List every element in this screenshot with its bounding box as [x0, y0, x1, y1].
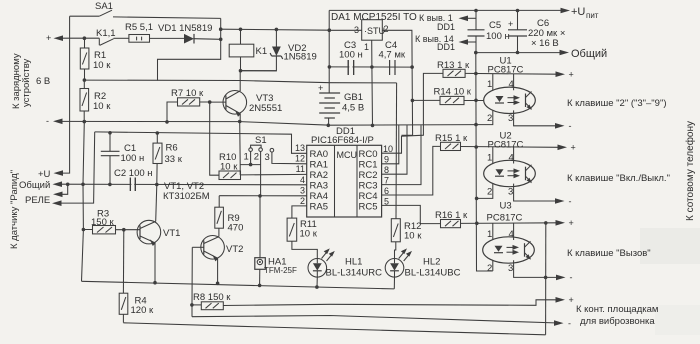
svg-text:× 16 В: × 16 В [531, 38, 559, 49]
wire DA1 pin1 down [371, 40, 374, 125]
wire line B VT2 base to vibro minus [192, 316, 555, 323]
wire pin5 RC5 to R16 [382, 205, 441, 223]
svg-text:3: 3 [508, 263, 513, 274]
svg-text:R5 5,1: R5 5,1 [125, 22, 153, 33]
junction R7 ground rail [165, 120, 169, 124]
switch SA1 [70, 10, 221, 18]
junction VT1 emitter rail [153, 281, 157, 285]
svg-text:C2 100 н: C2 100 н [114, 168, 153, 179]
wire plus rail after VD1 [221, 29, 330, 30]
svg-text:120 к: 120 к [131, 305, 154, 316]
svg-text:100 н: 100 н [121, 153, 145, 164]
junction V1 R16 line [475, 222, 479, 226]
svg-text:1: 1 [487, 229, 492, 240]
svg-text:К клавише "2" ("3"–"9"): К клавише "2" ("3"–"9") [567, 98, 667, 109]
svg-text:1: 1 [487, 79, 492, 90]
junction battery minus ground rail [327, 124, 331, 128]
wire 6V rail [84, 80, 396, 83]
svg-text:HL2: HL2 [423, 257, 440, 268]
svg-text:RA5: RA5 [310, 202, 328, 213]
arrow +U [54, 170, 64, 176]
junction DA1 pin1 C3C4 wire [370, 65, 374, 69]
wire R2 vertical down to Общий and R3 [82, 122, 85, 282]
wire DA1 pin2 right and down [382, 30, 412, 135]
svg-text:КТ3102БМ: КТ3102БМ [163, 191, 210, 202]
svg-text:10 к: 10 к [404, 231, 422, 242]
capacitor C6 [508, 11, 527, 53]
wire emitter rail D [82, 281, 395, 289]
junction R3 left [82, 228, 86, 232]
svg-text:PC817C: PC817C [487, 213, 523, 224]
left rotated label "К зарядному устройству" [11, 53, 32, 109]
optocoupler U3 [483, 201, 556, 278]
arrow U3 minus [556, 275, 566, 281]
ground rail [57, 121, 476, 125]
svg-text:-: - [46, 116, 49, 126]
svg-text:10 к: 10 к [220, 162, 238, 173]
svg-text:S1: S1 [255, 135, 267, 146]
svg-text:10 к: 10 к [300, 229, 318, 240]
svg-text:4: 4 [300, 175, 305, 185]
wire K vyv 14 DD1 arrow [462, 41, 476, 43]
LED HL2 [385, 248, 412, 289]
junction C6 Obshiy [516, 51, 520, 55]
wire VT3 base node down to R10 [210, 102, 219, 175]
wire VD1 node vertical [158, 29, 221, 80]
svg-text:2: 2 [487, 263, 492, 274]
wire RA5 pin2 to R11 [292, 206, 307, 218]
transistor VT2 [192, 236, 224, 284]
svg-text:1: 1 [364, 42, 369, 52]
resistor R10 [219, 171, 241, 180]
arrow РЕЛЕ [52, 200, 62, 206]
svg-text:+: + [571, 143, 576, 153]
svg-text:2: 2 [487, 187, 492, 198]
junction C3 wire battery [328, 65, 332, 69]
svg-text:9: 9 [384, 155, 389, 165]
svg-text:Общий: Общий [571, 48, 607, 60]
wire line C R4 to U3 minus [123, 323, 545, 335]
svg-text:RC5: RC5 [359, 202, 378, 213]
resistor R4 [119, 293, 128, 322]
svg-text:RC2: RC2 [359, 170, 378, 181]
svg-text:13: 13 [295, 143, 305, 153]
junction K1 bottom VT3 collector [239, 69, 243, 73]
svg-text:VT1: VT1 [163, 228, 180, 239]
pin numbers right [383, 144, 393, 207]
svg-text:R15 1 к: R15 1 к [435, 133, 468, 144]
resistor R5 [129, 35, 150, 43]
svg-text:10 к: 10 к [93, 101, 111, 112]
svg-text:VD1 1N5819: VD1 1N5819 [158, 23, 212, 34]
wire RA0 pin13 long wire [95, 132, 307, 153]
svg-text:1: 1 [244, 152, 249, 163]
junction RA4 wire S1 HA1 [258, 194, 262, 198]
svg-text:1: 1 [487, 153, 492, 164]
svg-text:2: 2 [384, 24, 389, 34]
svg-text:RC4: RC4 [359, 191, 378, 202]
svg-text:HL1: HL1 [345, 257, 362, 268]
junction corner top [219, 27, 223, 31]
arrow +Upit [561, 8, 571, 14]
wire R14 left vertical to DA1 pin2 line [402, 100, 441, 135]
junction plus rail DA1 [328, 28, 332, 32]
svg-text:BL-L314UBC: BL-L314UBC [405, 268, 461, 279]
junction VT3 emitter ground rail [238, 120, 242, 124]
junction V1 R14 line [474, 99, 478, 103]
svg-text:R13 1 к: R13 1 к [437, 60, 470, 71]
junction R1 bottom 6V rail [83, 78, 87, 82]
wire VT1 collector to Obshiy junction [156, 185, 157, 222]
battery GB1 [319, 93, 340, 125]
chip DD1 box [307, 145, 382, 217]
resistor R14 [440, 96, 484, 104]
resistor R11 [287, 218, 317, 259]
svg-text:SA1: SA1 [95, 1, 113, 12]
svg-text:+U: +U [38, 169, 51, 180]
resistor R15 [441, 142, 461, 150]
wire РЕЛЕ arrow to vertical [56, 132, 95, 203]
svg-text:4: 4 [509, 229, 514, 240]
capacitor C5 [468, 11, 485, 53]
svg-text:К конт. площадкам: К конт. площадкам [576, 304, 658, 315]
transistor VT3 [210, 71, 247, 122]
svg-text:устройству: устройству [21, 58, 32, 107]
wire U3 plus vertical down to line C [545, 223, 547, 335]
wire charger plus to K1.1 [57, 37, 99, 39]
svg-text:R7 10 к: R7 10 к [171, 88, 204, 99]
svg-text:2: 2 [300, 196, 305, 206]
svg-text:РЕЛЕ: РЕЛЕ [25, 195, 50, 206]
junction C5 Upit [474, 9, 478, 13]
svg-text:+: + [569, 70, 574, 80]
labels RA column [310, 149, 328, 213]
svg-text:+U: +U [571, 6, 585, 18]
svg-text:+: + [508, 19, 513, 29]
svg-text:R6: R6 [166, 143, 178, 154]
svg-text:+: + [46, 33, 51, 43]
resistor R12 [391, 219, 400, 259]
svg-text:150 к: 150 к [91, 217, 114, 228]
wire VT1 base node down to R4 [122, 230, 124, 294]
wire 6V vertical down to R12 [395, 83, 398, 219]
contact K1.1 [99, 38, 129, 45]
svg-text:DD1: DD1 [437, 22, 455, 32]
junction VD1 output [219, 38, 223, 42]
resistor R6 [153, 133, 162, 185]
junction VD2 top [275, 28, 279, 32]
capacitor C3 [348, 60, 353, 75]
svg-text:DA1 MCP1525I TO: DA1 MCP1525I TO [331, 12, 417, 23]
wire pin8 RC2 stub [382, 125, 407, 174]
wire Obshiy rail top [476, 52, 561, 54]
svg-text:K1,1: K1,1 [96, 28, 116, 39]
svg-text:K1: K1 [256, 46, 268, 57]
svg-text:-: - [568, 319, 571, 329]
wire left vertical from SA1 down to +U [57, 16, 70, 173]
wire battery plus vertical to Upit corner [328, 10, 330, 93]
regulator DA1 STU box [362, 20, 385, 41]
svg-text:PIC16F684-I/P: PIC16F684-I/P [311, 135, 374, 146]
svg-text:BL-L314URC: BL-L314URC [326, 268, 383, 279]
svg-text:8: 8 [384, 165, 389, 175]
wire VT2 base down to R8 [191, 247, 193, 316]
svg-text:10 к: 10 к [93, 60, 111, 71]
svg-text:-: - [569, 121, 572, 131]
svg-text:+: + [569, 218, 574, 228]
resistor R2 [80, 80, 89, 122]
wire RA2 pin11 to R10 [241, 173, 307, 176]
svg-text:К сотовому телефону: К сотовому телефону [684, 121, 696, 221]
svg-text:RC0: RC0 [359, 149, 378, 160]
svg-text:2: 2 [487, 113, 492, 124]
wire R5 to VD1 [150, 37, 185, 39]
resistor R1 [80, 40, 89, 80]
junction R6 bottom Obshiy VT1 collector [155, 183, 159, 187]
capacitor C1 [101, 133, 120, 185]
svg-text:4,7 мк: 4,7 мк [379, 50, 406, 61]
junction HA1 rail [258, 284, 262, 288]
junction R8 left [190, 303, 194, 307]
junction C1 bottom Obshiy [108, 183, 112, 187]
svg-text:U3: U3 [500, 201, 512, 212]
wire pin9 RC1 stub [382, 125, 399, 164]
wire Общий left arrow to RA3 wire [57, 183, 307, 186]
svg-text:12: 12 [295, 154, 305, 164]
arrow Общий [53, 181, 63, 187]
junction DA1 pin2 C3C4 end [410, 65, 414, 69]
arrow charger minus [53, 119, 63, 125]
svg-text:-: - [569, 196, 572, 206]
junction R14 DA1 pin2 vertical [411, 99, 415, 103]
IR receiver HA1 [255, 258, 265, 286]
svg-text:RA1: RA1 [310, 160, 328, 171]
capacitor C4 [390, 60, 395, 75]
svg-text:6 В: 6 В [36, 76, 50, 87]
wire R13 to U1 pin1 and plus arrow [465, 72, 556, 75]
svg-text:MCU: MCU [337, 150, 358, 160]
svg-text:4: 4 [509, 153, 514, 164]
wire RA4 node to HA1 [259, 196, 261, 258]
resistor R3 [83, 226, 123, 234]
junction V1 ground rail U1 pin2 [474, 123, 478, 127]
svg-text:VT2: VT2 [226, 244, 243, 255]
svg-text:RA4: RA4 [310, 191, 328, 202]
resistor R9 [215, 196, 224, 237]
svg-text:К клавише "Вызов": К клавише "Вызов" [567, 248, 651, 259]
arrow charger plus [54, 35, 64, 41]
optocoupler U2 [477, 131, 556, 202]
switch S1 [240, 145, 274, 196]
wire VT3 emitter node down S1 R10 [239, 122, 242, 175]
svg-text:3: 3 [300, 186, 305, 196]
junction U3 plus drop [544, 221, 548, 225]
svg-text:R8 150 к: R8 150 к [193, 292, 231, 303]
diode VD1 [184, 34, 221, 44]
junction C5 Obshiy [474, 51, 478, 55]
svg-text:C5: C5 [489, 20, 501, 31]
svg-text:3: 3 [265, 152, 270, 163]
svg-text:GB1: GB1 [344, 92, 363, 103]
svg-text:К клавише "Вкл./Выкл.": К клавише "Вкл./Выкл." [567, 173, 670, 184]
arrow Общий 2 [53, 192, 63, 198]
wire top right section to corner [220, 18, 222, 29]
wire R15 to U2 pin1 and plus arrow [461, 146, 559, 149]
svg-text:Общий: Общий [19, 180, 50, 191]
junction V1 R13 line [474, 72, 478, 76]
capacitor C2 [130, 178, 135, 192]
svg-text:для виброзвонка: для виброзвонка [580, 316, 655, 327]
svg-text:DD1: DD1 [437, 42, 455, 52]
svg-text:33 к: 33 к [165, 154, 183, 165]
pin numbers left [295, 143, 305, 206]
arrow U1 minus [555, 123, 565, 129]
relay coil K1 [229, 29, 254, 70]
resistor R7 [167, 98, 210, 122]
junction R3 right VT1 base [122, 228, 126, 232]
wire pin7 RC3 stub [382, 125, 421, 184]
svg-text:470: 470 [228, 223, 244, 234]
svg-text:11: 11 [296, 164, 305, 174]
svg-text:RA0: RA0 [310, 149, 328, 160]
transistor VT1 [124, 220, 161, 282]
svg-text:2N5551: 2N5551 [249, 103, 282, 114]
junction VT3 base node [208, 100, 212, 104]
junction C6 Upit [516, 9, 520, 13]
junction R1R2 on plus wire [83, 36, 87, 40]
diode VD2 [241, 29, 283, 71]
svg-text:4,5 В: 4,5 В [342, 103, 364, 114]
optocoupler U1 [476, 56, 556, 126]
junction R2 ground rail [83, 120, 87, 124]
svg-text:-: - [570, 273, 573, 283]
wire +Upit rail [329, 9, 562, 11]
junction R2 line Общий [81, 183, 85, 187]
svg-text:RC3: RC3 [359, 181, 378, 192]
svg-text:1N5819: 1N5819 [284, 52, 317, 63]
svg-text:TFM-25F: TFM-25F [264, 266, 297, 275]
svg-text:R16 1 к: R16 1 к [435, 210, 468, 221]
junction V1 R15 line [474, 145, 478, 149]
junction S1 common [249, 163, 253, 167]
resistor R16 [441, 220, 461, 228]
svg-text:2: 2 [254, 152, 259, 163]
svg-text:пит: пит [586, 11, 599, 20]
svg-text:7: 7 [384, 176, 389, 186]
wire C3 C4 horizontal [329, 66, 412, 68]
svg-text:3: 3 [508, 187, 513, 198]
junction R6 top RA0 wire [156, 131, 160, 135]
LED HL1 [308, 248, 335, 287]
wire K vyv 1 DD1 arrow [462, 17, 476, 19]
arrow Obshiy [560, 50, 570, 56]
svg-text:100 н: 100 н [486, 31, 510, 42]
resistor R8 [192, 302, 223, 310]
wire second Общий arrow [57, 184, 68, 194]
junction V1 U2 pin2 [475, 197, 479, 201]
svg-text:·STU: ·STU [364, 26, 385, 36]
wire V1 vertical common return [476, 53, 493, 271]
junction VT2 emitter rail [216, 282, 220, 286]
wire K1 bottom to VD2 bottom [241, 70, 277, 72]
svg-text:RC1: RC1 [359, 160, 378, 171]
junction K1 top [239, 28, 243, 32]
svg-text:+: + [569, 295, 574, 305]
resistor R13 [443, 69, 465, 77]
svg-text:R14 10 к: R14 10 к [434, 87, 472, 98]
svg-text:3: 3 [508, 113, 513, 124]
wire R16 to U3 pin1 and plus arrow [461, 222, 557, 225]
svg-text:10: 10 [383, 144, 393, 154]
wire DA1 pin3 to plus node [329, 29, 361, 31]
wire line A R8 to vibro plus [223, 300, 556, 306]
svg-text:+: + [318, 83, 323, 93]
svg-text:RA3: RA3 [310, 181, 328, 192]
wire RA1 pin12 to S1 pin3 [272, 152, 307, 164]
junction DA1 pin1 ground rail [371, 124, 375, 128]
wire pin10 RC0 to R13 [382, 73, 443, 153]
junction left vert Общий [66, 183, 70, 187]
wire RA4 pin3 to R9 [219, 195, 307, 197]
arrow U2 minus [555, 198, 565, 204]
svg-text:4: 4 [509, 79, 514, 90]
labels RC column [359, 149, 378, 213]
junction U3 minus line C vertical [544, 276, 548, 280]
junction C1 top RA0 wire [108, 131, 112, 135]
svg-text:100 н: 100 н [339, 50, 363, 61]
svg-text:RA2: RA2 [310, 170, 328, 181]
junction HL1 rail [315, 285, 319, 289]
wire pin6 RC4 to R15 [382, 146, 441, 195]
